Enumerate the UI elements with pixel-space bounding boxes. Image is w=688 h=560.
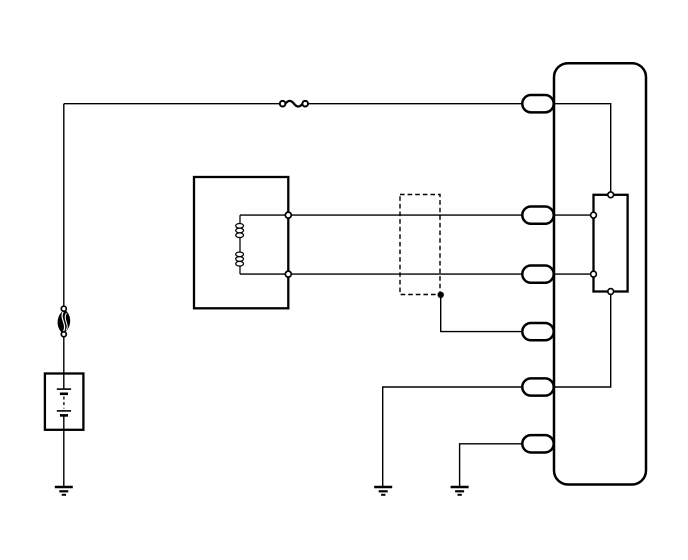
connector pill 3 <box>522 265 553 282</box>
wire: battery negative to ground <box>63 415 65 487</box>
coil unit box <box>194 177 288 308</box>
fusible link body <box>58 311 69 333</box>
ground G3 (pill6) <box>451 487 469 495</box>
relay terminal left lower <box>591 271 597 277</box>
wire: pill5 row to ground and up to relay bottom <box>383 292 611 488</box>
relay terminal top <box>608 192 614 198</box>
connector pill 1 <box>522 95 553 112</box>
ground G2 (pill5) <box>374 487 392 495</box>
connector pill 4 <box>522 323 553 340</box>
battery plate 1 long <box>57 388 71 390</box>
shield dashed box <box>400 195 440 295</box>
fuse F1 wave <box>285 101 302 107</box>
junction dot shield drain <box>438 292 444 298</box>
coil L1 <box>236 215 244 274</box>
wire: row B coil top to inner rect <box>240 214 594 216</box>
wire: row C coil bottom to inner rect <box>240 273 594 275</box>
wire: pill6 row to ground <box>460 444 554 487</box>
fusible link terminal bottom <box>61 332 66 337</box>
battery plate 4 short <box>60 414 68 417</box>
wire: left vertical (battery feed) <box>63 104 65 389</box>
connector pill 5 <box>522 378 553 395</box>
relay terminal bottom <box>608 289 614 295</box>
relay block inner rect <box>594 195 628 292</box>
wire: shield drain to pill4 <box>441 295 554 332</box>
fusible link terminal top <box>61 306 66 311</box>
battery plate 2 short <box>60 392 68 395</box>
battery dashed cell link <box>63 397 65 409</box>
fuse terminal left <box>280 101 286 107</box>
ground G1 (battery) <box>55 487 73 495</box>
relay terminal left upper <box>591 212 597 218</box>
battery plate 3 long <box>57 410 71 412</box>
fusible link twist lines <box>62 312 65 332</box>
wire: fuse to pill1 and into ECU down to relay top <box>308 104 611 195</box>
coil box terminal bottom <box>285 271 291 277</box>
connector pill 6 <box>522 435 553 452</box>
battery box <box>45 374 84 430</box>
fuse terminal right <box>302 101 308 107</box>
connector pill 2 <box>522 206 553 223</box>
coil box terminal top <box>285 212 291 218</box>
ECU rounded box <box>554 63 646 484</box>
wire: top-left horizontal to fuse <box>64 103 280 105</box>
